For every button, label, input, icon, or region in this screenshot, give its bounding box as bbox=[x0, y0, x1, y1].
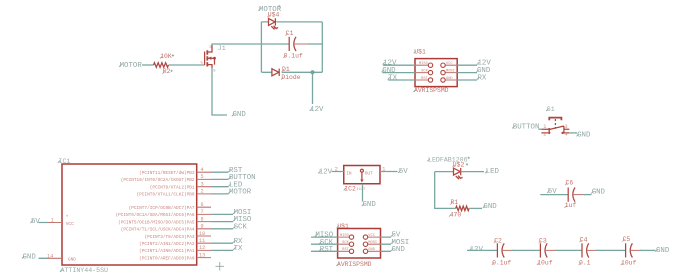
svg-text:11: 11 bbox=[199, 238, 205, 244]
svg-text:(PCINT3/T0/ADC3)PA3: (PCINT3/T0/ADC3)PA3 bbox=[144, 235, 194, 240]
svg-text:GND: GND bbox=[23, 254, 37, 262]
svg-text:VCC: VCC bbox=[446, 62, 453, 66]
svg-text:6: 6 bbox=[201, 202, 204, 208]
svg-text:0.1uf: 0.1uf bbox=[284, 52, 303, 59]
svg-text:10uf: 10uf bbox=[537, 259, 553, 266]
svg-text:AVRISPSMD: AVRISPSMD bbox=[414, 87, 449, 94]
svg-text:SCK: SCK bbox=[342, 241, 349, 245]
svg-text:(PCINT1/AIN0/ADC1)PA1: (PCINT1/AIN0/ADC1)PA1 bbox=[139, 249, 195, 254]
svg-text:GND: GND bbox=[446, 77, 453, 81]
svg-text:C4: C4 bbox=[580, 237, 588, 244]
svg-text:+: + bbox=[66, 214, 69, 219]
svg-text:(PCINT4/T1/SCL/USCK/ADC4)PA4: (PCINT4/T1/SCL/USCK/ADC4)PA4 bbox=[121, 228, 195, 233]
svg-text:(PCINT5/OC1B/MISO/DO/ADC5)PA5: (PCINT5/OC1B/MISO/DO/ADC5)PA5 bbox=[118, 220, 195, 225]
svg-text:2: 2 bbox=[543, 132, 546, 138]
svg-text:(PCINT8/XTAL1/CLKI)PB0: (PCINT8/XTAL1/CLKI)PB0 bbox=[137, 193, 195, 198]
svg-text:D1: D1 bbox=[282, 66, 290, 73]
svg-text:GND: GND bbox=[656, 247, 670, 255]
svg-text:ATTINY44-5SU: ATTINY44-5SU bbox=[61, 267, 109, 274]
svg-text:MOSI: MOSI bbox=[368, 241, 377, 245]
svg-text:MISO: MISO bbox=[419, 62, 429, 66]
svg-text:SCK: SCK bbox=[421, 69, 428, 73]
svg-text:10: 10 bbox=[199, 231, 205, 237]
svg-text:U$1: U$1 bbox=[414, 48, 426, 55]
svg-text:RX: RX bbox=[478, 75, 487, 83]
svg-text:GND: GND bbox=[592, 189, 606, 197]
svg-text:(PCINT9/XTAL2)PB1: (PCINT9/XTAL2)PB1 bbox=[150, 186, 195, 191]
svg-text:9: 9 bbox=[201, 224, 204, 230]
svg-text:(PCINT6/OC1A/SDA/MOSI/ADC6)PA6: (PCINT6/OC1A/SDA/MOSI/ADC6)PA6 bbox=[115, 213, 194, 218]
svg-text:(PCINT7/ICP/OC0B/ADC7)PA7: (PCINT7/ICP/OC0B/ADC7)PA7 bbox=[129, 206, 195, 211]
svg-text:C5: C5 bbox=[623, 236, 631, 243]
svg-text:MOSI: MOSI bbox=[446, 69, 455, 73]
svg-text:VCC: VCC bbox=[66, 222, 74, 227]
svg-text:(PCINT11/RESET/dW)PB3: (PCINT11/RESET/dW)PB3 bbox=[139, 171, 195, 176]
svg-text:7: 7 bbox=[201, 209, 204, 215]
svg-text:MISO: MISO bbox=[340, 234, 350, 238]
svg-text:(PCINT2/AIN1/ADC2)PA2: (PCINT2/AIN1/ADC2)PA2 bbox=[139, 242, 195, 247]
svg-text:RST: RST bbox=[342, 248, 349, 252]
svg-text:R1: R1 bbox=[451, 199, 459, 206]
svg-text:VCC: VCC bbox=[368, 234, 375, 238]
svg-text:TX: TX bbox=[388, 75, 397, 83]
svg-text:RST: RST bbox=[320, 246, 334, 254]
svg-text:OUT: OUT bbox=[365, 171, 373, 176]
svg-text:C3: C3 bbox=[539, 237, 547, 244]
svg-text:G: G bbox=[201, 62, 203, 66]
svg-text:3: 3 bbox=[565, 124, 568, 130]
svg-text:GND: GND bbox=[483, 203, 497, 211]
svg-text:GND: GND bbox=[577, 131, 591, 139]
svg-text:GND: GND bbox=[233, 111, 247, 119]
svg-text:1: 1 bbox=[543, 124, 546, 130]
svg-text:5: 5 bbox=[201, 174, 204, 180]
svg-text:TX: TX bbox=[234, 245, 243, 253]
svg-text:12V: 12V bbox=[310, 106, 324, 114]
svg-text:5V: 5V bbox=[31, 218, 40, 226]
svg-text:14: 14 bbox=[47, 253, 53, 259]
svg-text:J1: J1 bbox=[218, 45, 226, 52]
svg-text:2: 2 bbox=[201, 189, 204, 195]
svg-text:GND: GND bbox=[363, 201, 377, 209]
svg-text:RST: RST bbox=[421, 77, 428, 81]
svg-text:AVRISPSMD: AVRISPSMD bbox=[337, 261, 372, 268]
svg-text:C2: C2 bbox=[494, 237, 502, 244]
svg-text:5V: 5V bbox=[399, 168, 408, 176]
svg-text:4: 4 bbox=[201, 167, 204, 173]
svg-text:3: 3 bbox=[201, 182, 204, 188]
svg-text:12: 12 bbox=[199, 245, 205, 251]
svg-text:470: 470 bbox=[450, 212, 462, 219]
svg-text:GND: GND bbox=[68, 258, 76, 263]
svg-text:MOTOR: MOTOR bbox=[120, 62, 143, 70]
svg-text:8: 8 bbox=[201, 216, 204, 222]
svg-text:IC2: IC2 bbox=[344, 185, 356, 192]
svg-text:4: 4 bbox=[565, 132, 568, 138]
svg-text:(PCINT0/AREF/ADC0)PA0: (PCINT0/AREF/ADC0)PA0 bbox=[139, 256, 195, 261]
svg-text:1117: 1117 bbox=[357, 188, 366, 192]
svg-text:C6: C6 bbox=[566, 180, 574, 187]
svg-text:(PCINT10/INT0/OC2A/CKOUT)PB2: (PCINT10/INT0/OC2A/CKOUT)PB2 bbox=[121, 178, 195, 183]
svg-text:Diode: Diode bbox=[281, 74, 300, 81]
svg-text:SCK: SCK bbox=[234, 223, 248, 231]
svg-text:BUTTON: BUTTON bbox=[513, 123, 540, 131]
svg-text:R2: R2 bbox=[163, 68, 171, 75]
svg-text:MOTOR: MOTOR bbox=[229, 189, 252, 197]
svg-text:0.1uf: 0.1uf bbox=[492, 259, 511, 266]
svg-text:13: 13 bbox=[199, 252, 205, 258]
svg-text:10uf: 10uf bbox=[621, 260, 637, 267]
svg-text:LED: LED bbox=[486, 168, 500, 176]
svg-text:GND: GND bbox=[368, 248, 375, 252]
svg-text:2: 2 bbox=[335, 167, 338, 173]
svg-text:12V: 12V bbox=[319, 168, 333, 176]
svg-text:IN: IN bbox=[346, 171, 352, 176]
svg-text:1: 1 bbox=[51, 218, 54, 224]
svg-text:GND: GND bbox=[392, 246, 406, 254]
svg-text:1: 1 bbox=[382, 167, 385, 173]
